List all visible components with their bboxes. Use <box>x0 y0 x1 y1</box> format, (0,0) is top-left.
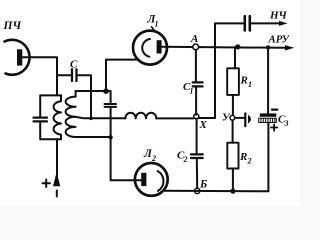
capacitor C2 <box>191 154 203 158</box>
label + supply <box>43 180 51 188</box>
junction secondary bottom lead <box>108 135 112 139</box>
inductor L2 secondary coil <box>66 91 76 137</box>
svg-text:1: 1 <box>155 20 159 29</box>
svg-text:Б: Б <box>199 179 207 191</box>
wire: secondary top jog <box>76 90 111 92</box>
svg-text:А: А <box>190 33 198 45</box>
Л2 cathode <box>158 171 164 191</box>
wire: secondary bottom lead <box>76 136 111 138</box>
svg-text:1: 1 <box>248 80 252 89</box>
junction C-line/X-line <box>89 117 93 121</box>
primary tuning capacitor <box>34 118 48 122</box>
АРУ arrowhead <box>285 45 294 50</box>
capacitor C <box>72 69 77 81</box>
wire: НЧ top horizontal <box>215 22 243 24</box>
label C3 <box>278 114 289 129</box>
wire: НЧ riser <box>214 23 216 118</box>
label C <box>70 59 78 71</box>
svg-text:НЧ: НЧ <box>269 10 288 22</box>
wire: tap to capacitor C <box>57 74 71 76</box>
junction C3 top <box>266 45 270 49</box>
secondary tuning capacitor <box>105 104 117 107</box>
wire: Л2 anode lead <box>111 179 142 181</box>
wire: A down to C1 <box>195 50 197 81</box>
svg-text:R: R <box>239 151 247 163</box>
resistor R2 <box>227 120 238 191</box>
label Л1 <box>147 14 159 29</box>
wire: secondary tap to coupling coil <box>76 117 126 118</box>
wire: cap top to primary coil top <box>40 95 61 116</box>
Л2 anode plate <box>141 173 146 186</box>
wire: C to X-line <box>78 75 91 118</box>
Л1 anode plate <box>157 40 162 53</box>
tube Л2 envelope <box>135 163 168 196</box>
node Б <box>195 188 200 193</box>
minus sign at C3 <box>272 108 277 110</box>
capacitor C1 <box>193 82 203 86</box>
svg-text:R: R <box>240 75 248 87</box>
node A <box>193 44 199 50</box>
capacitor C3 bottom plate <box>259 118 277 122</box>
wire: C3 bottom to bus <box>267 123 269 192</box>
wire: У stub <box>235 117 244 119</box>
wire: ПЧ anode to primary top <box>22 57 57 95</box>
label НЧ <box>269 10 288 22</box>
Л1 label leader <box>152 27 156 32</box>
label АРУ <box>268 34 291 46</box>
wire: C2 to Б <box>196 159 198 188</box>
ПЧ anode plate <box>17 49 22 65</box>
capacitor C3 top plate <box>260 113 277 116</box>
wire: jog down to secondary cap <box>110 91 112 102</box>
wire: C3 branch top <box>267 47 269 113</box>
label Х <box>199 119 208 131</box>
svg-text:АРУ: АРУ <box>268 34 291 46</box>
svg-text:1: 1 <box>190 87 194 96</box>
plus sign at C3 <box>271 124 277 130</box>
wire: cap bottom to primary coil bottom <box>40 123 61 140</box>
tube Л1 envelope <box>133 31 167 65</box>
curved plate at У <box>248 115 251 124</box>
svg-text:У: У <box>222 112 231 124</box>
label А <box>190 33 198 45</box>
inductor L1 primary coil <box>54 95 61 139</box>
label У <box>222 112 231 124</box>
capacitor plate at У <box>244 113 246 126</box>
wire: bottom bus <box>165 190 269 193</box>
svg-text:2: 2 <box>247 157 252 166</box>
svg-text:Х: Х <box>199 119 208 131</box>
wire: X to НЧ riser <box>199 117 215 119</box>
resistor R1 <box>227 47 239 115</box>
svg-text:3: 3 <box>284 119 289 128</box>
wire: C1 to X <box>195 88 197 115</box>
svg-text:2: 2 <box>151 154 156 163</box>
label ПЧ <box>3 20 22 32</box>
wire: Л1 cathode lead <box>106 60 138 92</box>
svg-text:С: С <box>70 59 78 71</box>
label C2 <box>177 150 188 165</box>
wire: main АРУ line <box>162 47 285 48</box>
label R1 <box>240 75 253 90</box>
label C1 <box>183 81 194 96</box>
wire: secondary cap down to Л2 anode <box>110 108 112 180</box>
tube ПЧ (IF stage) envelope <box>5 40 30 75</box>
inductor L3 coupling coil <box>125 113 156 119</box>
node У <box>230 115 235 120</box>
wire: НЧ output with arrow <box>251 21 287 26</box>
label Б <box>199 179 207 191</box>
label R2 <box>239 151 252 166</box>
junction R1 top <box>235 44 240 49</box>
capacitor НЧ coupling <box>245 16 250 30</box>
Л1 cathode <box>142 39 150 57</box>
wire: X down to C2 <box>196 119 198 153</box>
svg-text:ПЧ: ПЧ <box>3 20 22 32</box>
wire: B+ supply with arrow <box>53 139 60 196</box>
junction R2 bottom <box>230 189 235 194</box>
node X <box>194 114 199 119</box>
wire: coil to node X <box>156 117 193 119</box>
junction jog/Л1 cathode <box>103 88 109 94</box>
label Л2 <box>143 148 156 163</box>
svg-text:2: 2 <box>183 155 188 164</box>
